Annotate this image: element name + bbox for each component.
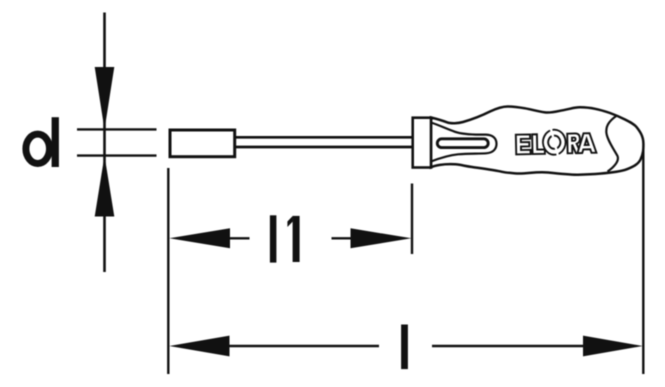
dimension l: right extension line	[642, 148, 644, 374]
label d (stem)	[52, 117, 59, 167]
dimension d: top arrow	[95, 67, 115, 130]
shaft bottom line	[235, 146, 413, 149]
dimension d: bottom extension line	[77, 154, 157, 156]
letter L	[532, 134, 545, 154]
shaft top line	[235, 136, 413, 139]
dimension d: vertical line	[103, 13, 106, 273]
ELORA logo O top gap	[550, 128, 555, 137]
letter E	[516, 134, 531, 154]
handle silhouette	[431, 106, 643, 174]
handle end-cap separation curve	[606, 116, 618, 172]
dimension l1: left arrow	[169, 228, 230, 248]
handle grip pad around slot	[431, 123, 497, 162]
ELORA logo O bottom gap	[555, 147, 560, 156]
label l (bar)	[401, 325, 408, 370]
letter A	[577, 133, 596, 153]
dimension l: left arrow	[169, 336, 229, 357]
dimension d: top extension line	[77, 128, 157, 130]
dimension l1: right extension line	[411, 184, 413, 255]
socket (nut driver tip)	[170, 130, 235, 157]
letter O outer ring	[543, 129, 566, 154]
dimension l1: line left segment	[229, 237, 250, 239]
dimension l: line right segment	[432, 345, 584, 347]
dimension l1: right arrow	[351, 228, 412, 248]
ELORA logo	[516, 129, 597, 156]
label l1 (1 stem)	[293, 216, 300, 262]
dimension d: bottom arrow	[95, 156, 115, 217]
label l1 (l bar)	[270, 215, 277, 262]
dimension l1+l: left extension line	[167, 168, 169, 374]
dimension l: right arrow	[583, 336, 643, 357]
dimension l1: line right segment	[332, 237, 353, 239]
slot in handle	[437, 139, 488, 148]
dimension l: line left segment	[229, 345, 379, 347]
ferrule	[413, 118, 431, 168]
letter R	[567, 133, 581, 153]
label d (bowl)	[26, 134, 50, 163]
label l1 (1 flag)	[287, 216, 292, 227]
